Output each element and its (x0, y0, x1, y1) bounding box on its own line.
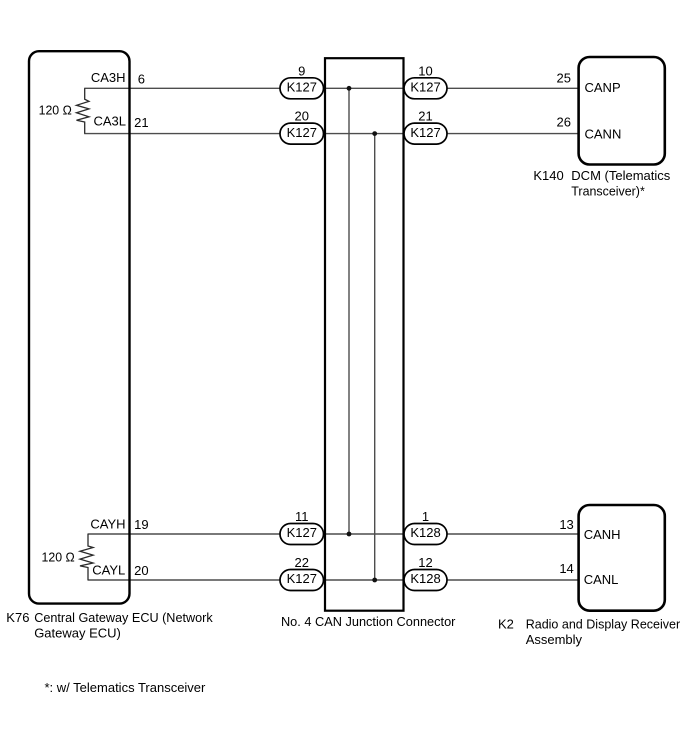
svg-text:DCM (Telematics: DCM (Telematics (571, 168, 670, 183)
svg-text:CA3L: CA3L (93, 114, 126, 129)
svg-text:Assembly: Assembly (526, 632, 583, 647)
svg-text:K127: K127 (287, 125, 317, 140)
svg-text:11: 11 (295, 509, 309, 524)
svg-text:21: 21 (418, 109, 432, 124)
svg-text:26: 26 (557, 115, 571, 130)
svg-text:CANN: CANN (585, 126, 622, 141)
svg-text:K140: K140 (533, 168, 563, 183)
svg-text:Gateway ECU): Gateway ECU) (34, 626, 121, 641)
svg-text:Transceiver)*: Transceiver)* (571, 184, 645, 199)
svg-text:19: 19 (134, 517, 148, 532)
svg-text:No. 4 CAN Junction Connector: No. 4 CAN Junction Connector (281, 614, 456, 629)
svg-text:CA3H: CA3H (91, 70, 126, 85)
svg-text:K127: K127 (410, 125, 440, 140)
svg-text:K2: K2 (498, 617, 514, 632)
svg-text:13: 13 (559, 517, 573, 532)
svg-text:120 Ω: 120 Ω (42, 550, 75, 565)
svg-text:CAYH: CAYH (90, 517, 125, 532)
svg-text:25: 25 (557, 71, 571, 86)
svg-text:6: 6 (138, 71, 145, 86)
svg-text:K128: K128 (410, 525, 440, 540)
svg-text:K127: K127 (287, 525, 317, 540)
svg-text:20: 20 (295, 109, 309, 124)
svg-text:9: 9 (298, 63, 305, 78)
svg-text:K127: K127 (287, 571, 317, 586)
svg-text:120 Ω: 120 Ω (39, 102, 72, 117)
svg-text:CANL: CANL (584, 572, 619, 587)
svg-text:Radio and Display Receiver: Radio and Display Receiver (526, 617, 681, 632)
svg-text:14: 14 (559, 561, 573, 576)
svg-text:22: 22 (295, 555, 309, 570)
svg-text:*: w/ Telematics Transceiver: *: w/ Telematics Transceiver (45, 680, 207, 695)
svg-text:K127: K127 (287, 79, 317, 94)
svg-text:K128: K128 (410, 571, 440, 586)
svg-text:K127: K127 (410, 79, 440, 94)
svg-text:20: 20 (134, 563, 148, 578)
svg-text:1: 1 (422, 509, 429, 524)
svg-text:21: 21 (134, 115, 148, 130)
svg-text:K76: K76 (6, 610, 29, 625)
svg-text:10: 10 (418, 63, 432, 78)
svg-text:CANP: CANP (585, 80, 621, 95)
svg-text:CANH: CANH (584, 527, 621, 542)
svg-text:12: 12 (418, 555, 432, 570)
svg-text:CAYL: CAYL (92, 563, 125, 578)
svg-text:Central Gateway ECU (Network: Central Gateway ECU (Network (34, 610, 213, 625)
